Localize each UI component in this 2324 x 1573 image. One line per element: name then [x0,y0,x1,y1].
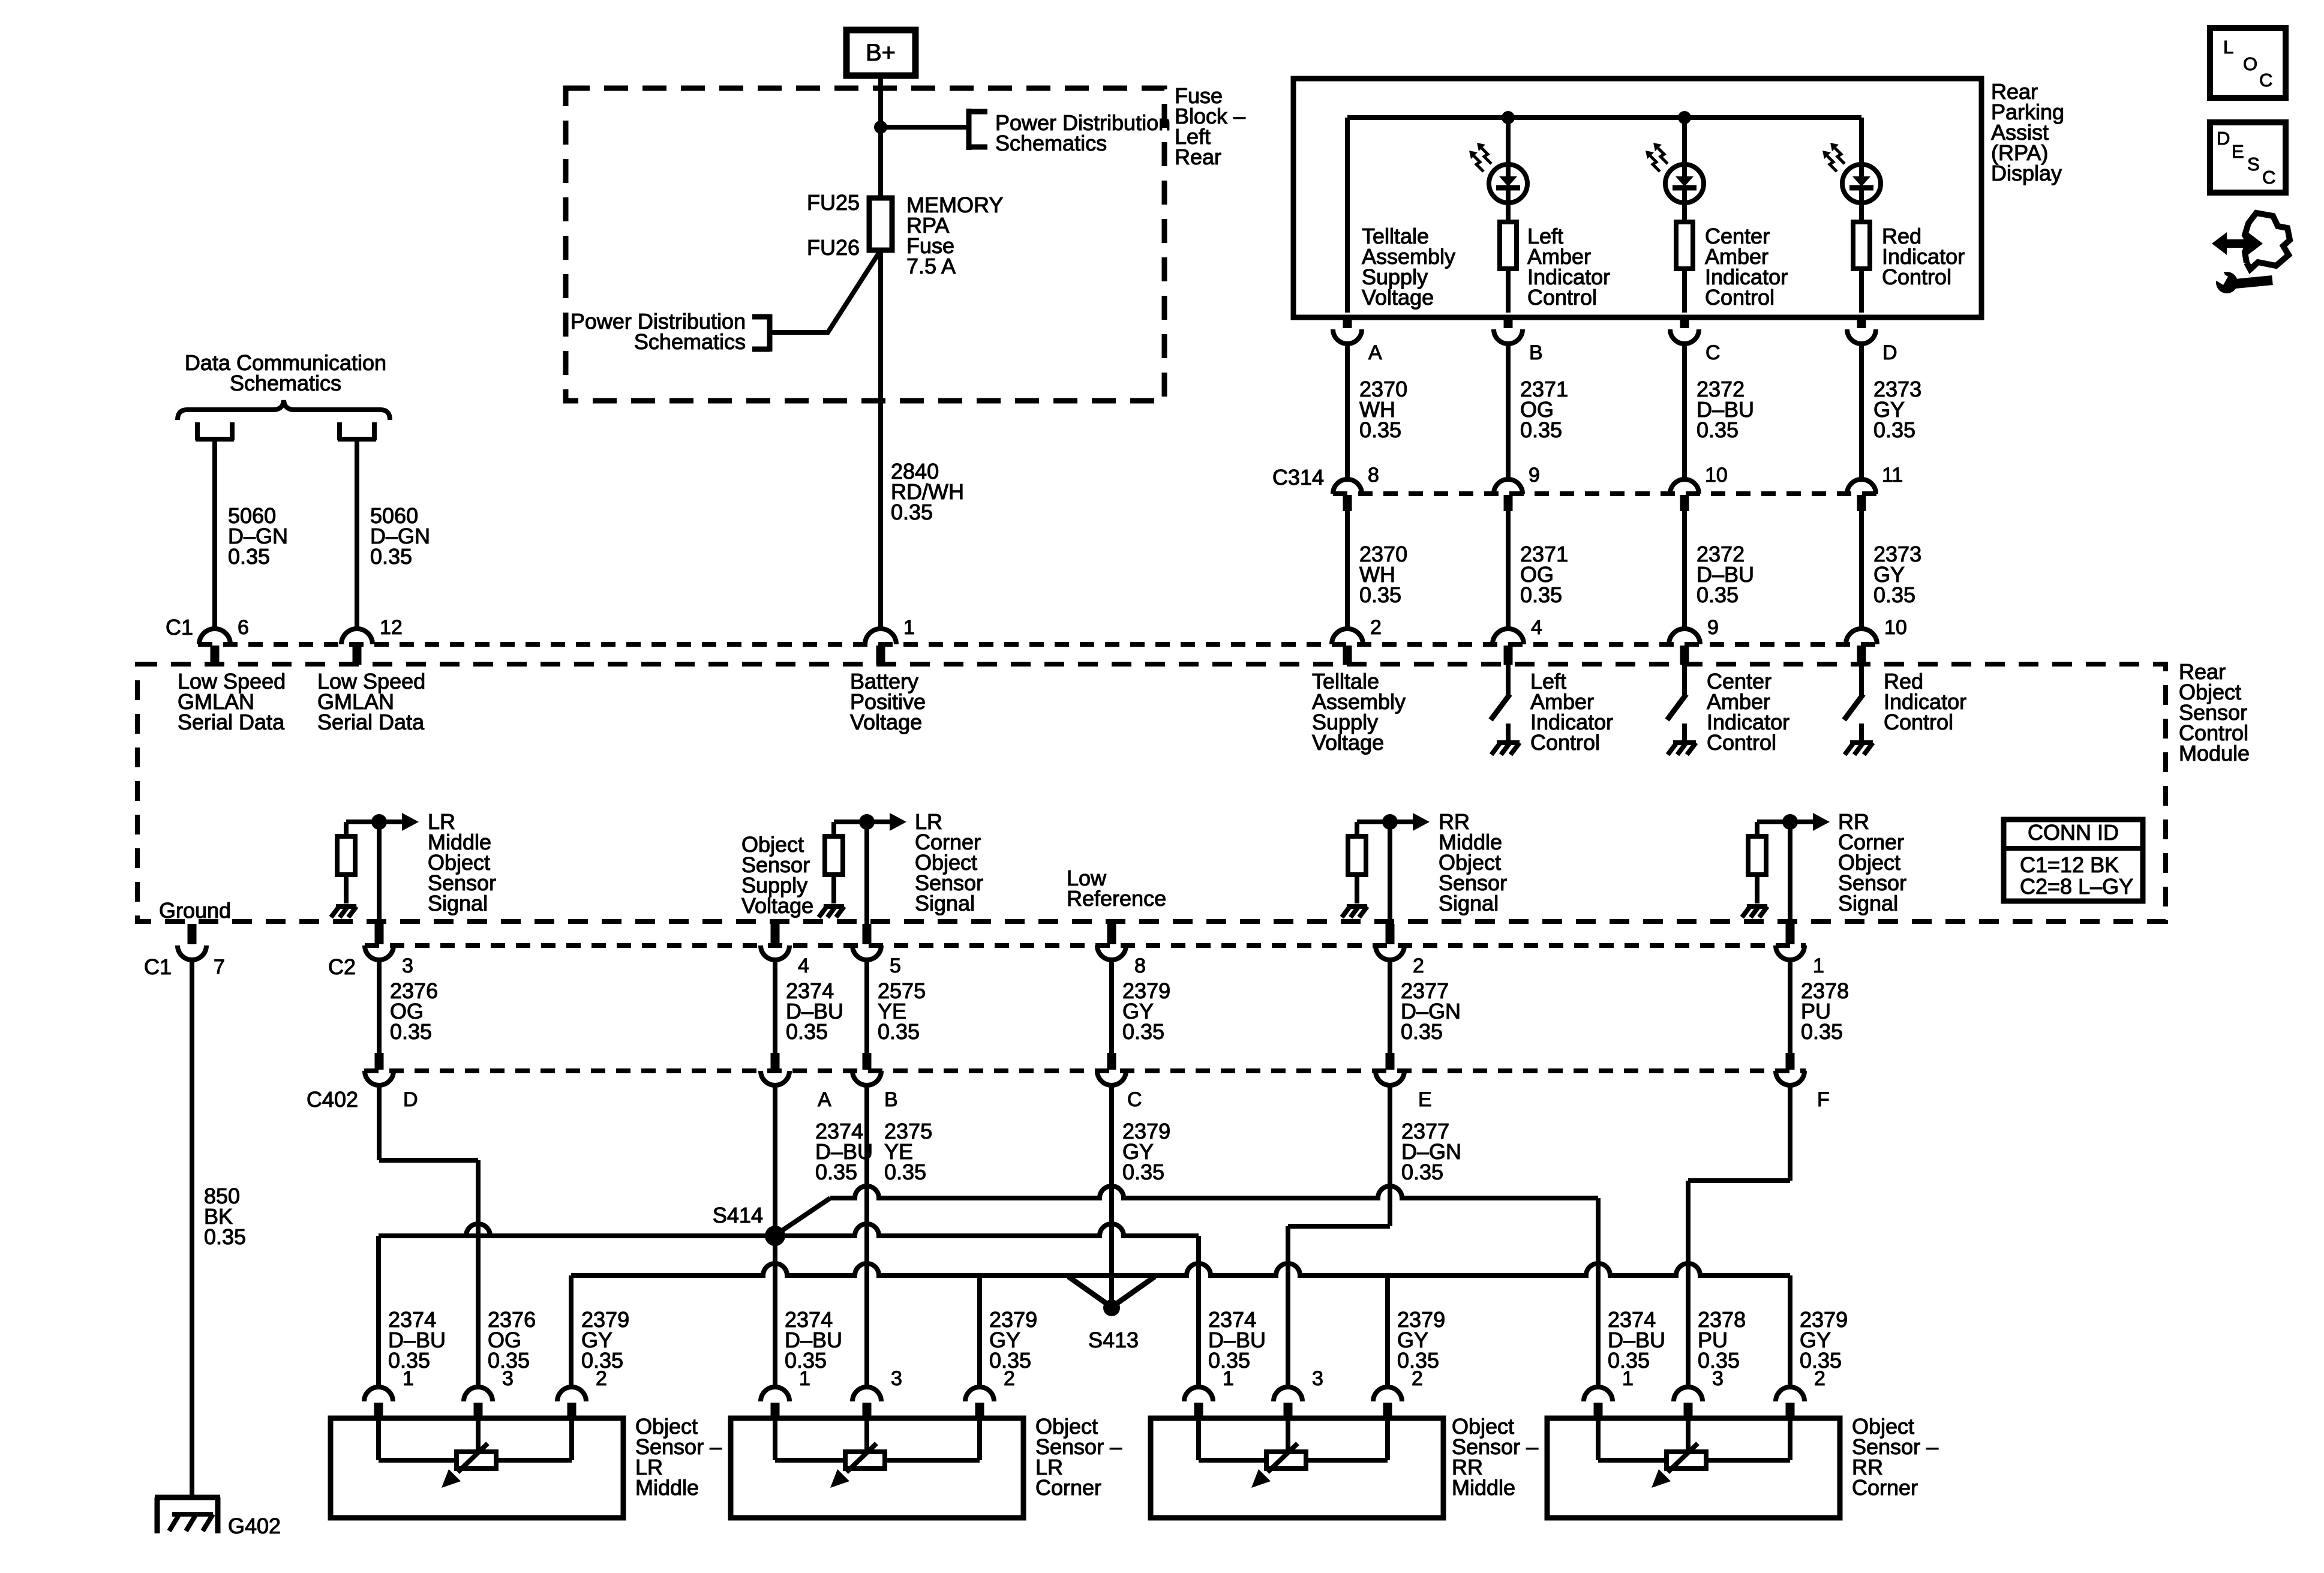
connector C402 line [364,1068,1806,1073]
wire 2374 D-BU column A [773,1085,777,1387]
label sensor pin 3 at x=1445 [891,1367,902,1390]
label wire 2374 D–BU (sensor 1) [1208,1307,1266,1373]
icon LOC box [2210,28,2286,98]
svg-text:0.35: 0.35 [1359,583,1401,607]
label module top pin 10 [1884,616,1907,639]
connector sensor entry at x=2313 [1373,1387,1402,1419]
svg-text:E: E [2232,141,2244,162]
svg-text:3: 3 [891,1367,902,1390]
svg-text:G402: G402 [228,1514,281,1538]
svg-text:C: C [2262,167,2275,188]
connector C2 pin 2 [1376,924,1404,960]
svg-text:Signal: Signal [915,891,975,915]
svg-text:0.35: 0.35 [1520,583,1562,607]
label Red (module) [1884,669,1966,734]
svg-text:2: 2 [1413,954,1424,977]
svg-text:0.35: 0.35 [786,1019,828,1044]
svg-text:C: C [1127,1088,1142,1111]
label C314 pin 11 [1882,464,1903,487]
svg-text:Display: Display [1991,161,2062,185]
svg-text:0.35: 0.35 [370,544,412,569]
conn id table [2004,819,2143,901]
connector C2 pin 3 [365,924,394,960]
connector sensor entry at x=2814 [1674,1387,1703,1419]
label wire 2379 GY (sensor 2) [1800,1307,1848,1373]
label C2 pin 8 [1134,954,1146,977]
connector C402 pin B [852,1053,881,1085]
label wire 2379 GY (sensor 2) [989,1307,1037,1373]
label low speed gmlan serial data 1 [178,669,286,734]
label C402 pin F [1817,1088,1830,1111]
connector C2 pin 4 [761,924,789,960]
label sensor pin 2 at x=953 [596,1367,607,1390]
connector display pin B [1494,315,1523,479]
label wire 2370 WH upper [1359,377,1407,442]
module output RR middle object sensor signal [1342,813,1430,925]
label sensor pin 1 at x=2664 [1622,1367,1634,1390]
svg-text:C402: C402 [307,1087,358,1112]
label red indicator control (display) [1882,224,1965,289]
svg-text:D: D [403,1088,418,1111]
wire 2378 PU pin F jog [1688,1085,1790,1387]
terminal serial data right [338,422,376,440]
label wire 2379 GY (sensor 2) [581,1307,629,1373]
svg-text:Control: Control [1705,285,1774,310]
connector sensor entry at x=1445 [852,1387,881,1419]
label C314 pin 8 [1368,464,1379,487]
svg-text:E: E [1418,1088,1432,1111]
label wire 2374 D–BU (C2-C402) [786,978,843,1044]
svg-text:D: D [2217,128,2230,149]
label Center (module) [1707,669,1789,755]
svg-text:Ground: Ground [159,898,231,923]
label wire 2373 GY lower [1873,542,1921,607]
label C314 [1272,465,1324,490]
label wire 2375 YE (below C402) [884,1119,932,1184]
label RR corner object sensor signal [1838,809,1906,915]
svg-text:1: 1 [1223,1367,1234,1390]
switch Red indicator driver [1844,665,1863,720]
label sensor pin 3 at x=2814 [1712,1367,1724,1390]
label module top pin 1 [903,616,915,639]
label S413 [1088,1328,1139,1352]
connector C402 pin A [761,1053,789,1085]
fuse block label [1175,83,1245,169]
svg-text:S414: S414 [713,1203,763,1227]
label C1 pin 7 [214,956,225,978]
off-page bracket power distribution (top) [969,109,987,150]
rear object sensor control module box [137,664,2166,921]
wire 2376 OG pin D jog [379,1085,478,1387]
object sensor RR corner [1547,1418,1840,1518]
svg-text:B: B [884,1088,898,1111]
label LR middle object sensor signal [428,809,496,915]
svg-text:Module: Module [2179,741,2250,766]
label wire 2840 RD/WH 0.35 [891,459,964,524]
wire C2 to C402 at x=2317 [1388,960,1392,1054]
connector C314 pin 10 [1670,479,1699,630]
connector sensor entry at x=797 [464,1387,493,1419]
wire 5060 D-GN left [212,440,217,630]
svg-text:Control: Control [1527,285,1597,310]
connector module top pin 4 [1493,629,1524,665]
svg-text:C1: C1 [144,954,172,979]
object sensor RR middle [1151,1418,1443,1518]
junction dot display bus B [1502,111,1515,124]
svg-text:Signal: Signal [428,891,488,915]
label module top pin 9 [1707,616,1719,639]
svg-text:B+: B+ [866,40,896,66]
svg-text:2: 2 [1412,1367,1423,1390]
svg-text:8: 8 [1368,464,1379,487]
svg-text:0.35: 0.35 [878,1019,920,1044]
label object sensor RR middle [1452,1414,1538,1500]
label wire 2377 D–GN (below C402) [1401,1119,1461,1184]
label rear parking assist display [1991,79,2064,185]
connector C2 pin 7 [178,924,206,960]
label LR corner object sensor signal [915,809,983,915]
label wire 2377 D–GN (C2-C402) [1401,978,1461,1044]
label sensor pin 2 at x=2313 [1412,1367,1423,1390]
svg-text:0.35: 0.35 [1697,418,1739,442]
connector sensor entry at x=2984 [1776,1387,1804,1419]
label power distribution schematics (top) [995,110,1170,155]
wire S414 branch to RR corner pin 1 [779,1186,1598,1387]
svg-text:9: 9 [1707,616,1719,639]
svg-text:O: O [2243,53,2257,74]
wire S413 branch to LR corner pin 2 [977,1275,982,1387]
svg-text:0.35: 0.35 [228,544,270,569]
label C2 pin 3 [402,954,413,977]
splice S414 [765,1226,785,1246]
svg-text:Rear: Rear [1175,145,1221,169]
label C402 pin D [403,1088,418,1111]
label wire 2373 GY upper [1873,377,1921,442]
svg-text:1: 1 [1622,1367,1634,1390]
connector sensor entry at x=1633 [965,1387,994,1419]
connector sensor entry at x=2664 [1584,1387,1613,1419]
connector module top pin 9 [1669,629,1700,665]
terminal serial data left [196,422,234,440]
object sensor LR middle [331,1418,623,1518]
label C1 [166,615,193,640]
label G402 [228,1514,281,1538]
label wire 2575 YE (C2-C402) [878,978,926,1044]
rear parking assist display box [1293,79,1981,317]
label wire 2374 D–BU (sensor 1) [388,1307,446,1373]
label data communication schematics [185,350,386,395]
wire tap to power distribution reference [881,125,969,130]
svg-text:C: C [2259,70,2272,91]
label object sensor supply voltage [741,832,813,918]
label FU25 [807,190,860,215]
label wire 2376 OG (sensor 3) [488,1307,536,1373]
label telltale assembly supply voltage (display) [1362,224,1455,310]
label display pin C [1706,341,1721,364]
wire S414 branch to RR middle pin 1 [775,1224,1199,1387]
module output RR corner object sensor signal [1742,813,1830,925]
svg-text:Voltage: Voltage [850,710,922,734]
label S414 [713,1203,763,1227]
label module top pin 6 [238,616,249,639]
connector display pin C [1670,315,1699,479]
connector C2 pin 1 [1776,924,1804,960]
svg-text:1: 1 [403,1367,414,1390]
label module top pin 2 [1370,616,1382,639]
wire C2 to C402 at x=2984 [1788,960,1792,1054]
label wire 2372 D–BU lower [1697,542,1754,607]
svg-text:C1: C1 [166,615,193,640]
label sensor pin 3 at x=797 [502,1367,514,1390]
svg-text:0.35: 0.35 [1401,1160,1443,1184]
svg-text:F: F [1817,1088,1830,1111]
svg-text:0.35: 0.35 [1401,1019,1443,1044]
fuse FU25/FU26 MEMORY RPA 7.5A [869,198,892,250]
label object sensor RR corner [1852,1414,1938,1500]
connector C402 pin F [1776,1053,1804,1085]
label wire 5060 D-GN 0.35 left [228,503,288,569]
connector module top pin 2 [1332,629,1363,665]
svg-text:A: A [1368,341,1382,364]
connector display pin A [1333,315,1362,479]
connector display pin D [1847,315,1876,479]
svg-text:Middle: Middle [635,1475,699,1500]
svg-text:L: L [2223,37,2233,58]
label wire 850 BK 0.35 [204,1184,246,1249]
icon wrench [2209,269,2272,293]
svg-text:8: 8 [1134,954,1146,977]
connector sensor entry at x=953 [557,1387,586,1419]
wire S414 branch to LR middle pin 1 [379,1224,775,1387]
module top connector line [198,642,1878,647]
label C402 pin C [1127,1088,1142,1111]
svg-text:2: 2 [1370,616,1382,639]
wire 5060 D-GN right [355,440,359,630]
label center amber indicator control (display) [1705,224,1788,310]
svg-text:CONN ID: CONN ID [2028,820,2119,845]
svg-text:Control: Control [1884,710,1953,734]
svg-text:9: 9 [1529,464,1540,487]
label rear object sensor control module [2179,659,2250,766]
label C2 pin 2 [1413,954,1424,977]
off-page bracket power distribution (left) [752,314,770,352]
LED left amber indicator [1469,118,1527,222]
svg-text:Corner: Corner [1852,1475,1918,1500]
label wire 2374 D–BU (sensor 1) [1608,1307,1665,1373]
svg-text:1: 1 [799,1367,810,1390]
label wire 2379 GY (C2-C402) [1122,978,1170,1044]
svg-text:Middle: Middle [1452,1475,1515,1500]
svg-text:0.35: 0.35 [1873,583,1915,607]
label C2 pin 1 [1813,954,1824,977]
label display pin D [1882,341,1897,364]
svg-text:10: 10 [1705,464,1728,487]
resistor display left [1500,222,1517,313]
label sensor pin 2 at x=2984 [1814,1367,1825,1390]
connector module top pin 10 [1846,629,1877,665]
svg-text:0.35: 0.35 [1122,1019,1164,1044]
svg-text:Serial Data: Serial Data [178,710,285,734]
wire C2 to C402 at x=1853 [1109,960,1114,1054]
label wire 2370 WH lower [1359,542,1407,607]
splice S413 [1103,1299,1120,1316]
svg-text:3: 3 [1312,1367,1323,1390]
svg-text:1: 1 [1813,954,1824,977]
connector sensor entry at x=631 [364,1387,393,1419]
svg-text:C314: C314 [1272,465,1324,490]
label fuse name [906,193,1003,278]
svg-text:6: 6 [238,616,249,639]
icon schematic navigation arrow [2212,213,2290,269]
label display pin B [1529,341,1543,364]
svg-text:S413: S413 [1088,1328,1139,1352]
wire fuse to power distribution (diagonal) [771,250,881,332]
brace data communication [178,400,390,420]
connector C402 pin D [365,1053,394,1085]
connector sensor entry at x=1998 [1184,1387,1213,1419]
svg-text:Control: Control [1882,265,1951,289]
connector module top pin 12 [341,629,373,665]
svg-text:0.35: 0.35 [1801,1019,1843,1044]
label object sensor LR corner [1035,1414,1122,1500]
svg-text:7: 7 [214,956,225,978]
svg-text:0.35: 0.35 [891,500,933,524]
label display pin A [1368,341,1382,364]
wire B+ to fuse FU25 [878,76,883,198]
wire 2379 GY column C [1109,1085,1114,1303]
wire 2375 YE column B [864,1085,869,1387]
svg-text:3: 3 [502,1367,514,1390]
svg-text:0.35: 0.35 [204,1224,246,1249]
label wire 2378 PU (C2-C402) [1801,978,1849,1044]
wire 2377 D-GN pin E jog [1288,1085,1390,1387]
svg-text:10: 10 [1884,616,1907,639]
ground Left indicator [1491,724,1520,755]
label module top pin 12 [380,616,403,639]
svg-text:Voltage: Voltage [1312,730,1384,755]
wire S413 low reference bus [571,1263,1790,1387]
svg-text:0.35: 0.35 [815,1160,857,1184]
svg-text:Signal: Signal [1439,891,1499,915]
svg-text:4: 4 [1531,616,1542,639]
battery feed B+ terminal box [846,30,915,76]
junction dot power distribution tap [874,121,887,134]
label battery positive voltage [850,669,926,734]
svg-text:FU25: FU25 [807,190,860,215]
svg-text:0.35: 0.35 [1873,418,1915,442]
label C402 [307,1087,358,1112]
label C2 pin 5 [890,954,901,977]
ground Center indicator [1668,724,1696,755]
junction dot display bus C [1678,111,1691,124]
label sensor pin 2 at x=1633 [1004,1367,1015,1390]
label module top pin 4 [1531,616,1542,639]
connector C314 line [1333,491,1878,496]
svg-text:Control: Control [1530,730,1600,755]
svg-text:A: A [818,1088,831,1111]
connector C402 pin C [1097,1053,1126,1085]
switch Center indicator driver [1667,665,1686,720]
label wire 2372 D–BU upper [1697,377,1754,442]
fuse block dashed box [566,88,1164,401]
svg-text:5: 5 [890,954,901,977]
module output LR corner object sensor signal [819,813,906,925]
label wire 5060 D-GN 0.35 right [370,503,430,569]
label left amber indicator control (display) [1527,224,1610,310]
label C2 pin 4 [798,954,809,977]
svg-text:11: 11 [1882,464,1903,487]
label C402 pin B [884,1088,898,1111]
svg-text:FU26: FU26 [807,235,860,260]
label wire 2378 PU (sensor 3) [1698,1307,1746,1373]
label sensor pin 3 at x=2147 [1312,1367,1323,1390]
svg-text:4: 4 [798,954,809,977]
display internal supply bus [1347,118,1861,313]
svg-text:Schematics: Schematics [230,371,341,395]
label low speed gmlan serial data 2 [317,669,425,734]
svg-text:C1=12 BK: C1=12 BK [2020,852,2119,877]
label C402 pin E [1418,1088,1432,1111]
connector sensor entry at x=1292 [761,1387,789,1419]
object sensor LR corner [731,1418,1023,1518]
svg-text:0.35: 0.35 [1520,418,1562,442]
label wire 2379 GY (below C402) [1122,1119,1170,1184]
svg-text:1: 1 [903,616,915,639]
label wire 2376 OG (C2-C402) [390,978,438,1044]
label object sensor LR middle [635,1414,722,1500]
svg-text:Voltage: Voltage [741,893,813,918]
svg-text:0.35: 0.35 [1697,583,1739,607]
svg-text:2: 2 [596,1367,607,1390]
svg-text:2: 2 [1814,1367,1825,1390]
svg-text:3: 3 [402,954,413,977]
LED center amber indicator [1646,118,1704,222]
wire C2 to C402 at x=632 [377,960,382,1054]
connector module top pin 1 [865,629,896,665]
ground G402 [155,1497,220,1533]
svg-text:C2=8 L–GY: C2=8 L–GY [2020,874,2133,899]
svg-text:C: C [1706,341,1721,364]
svg-text:2: 2 [1004,1367,1015,1390]
resistor display red [1853,222,1870,313]
svg-text:12: 12 [380,616,403,639]
svg-text:0.35: 0.35 [1122,1160,1164,1184]
connector C314 pin 9 [1494,479,1523,630]
connector C2 line [365,943,1806,948]
module output LR middle object sensor signal [331,813,419,925]
connector C402 pin E [1376,1053,1404,1085]
svg-text:Corner: Corner [1035,1475,1101,1500]
label wire 2371 OG upper [1520,377,1568,442]
svg-text:Schematics: Schematics [995,131,1107,155]
connector sensor entry at x=2147 [1274,1387,1302,1419]
label wire 2374 D–BU (sensor 1) [785,1307,842,1373]
svg-text:Serial Data: Serial Data [317,710,425,734]
label Left (module) [1530,669,1613,755]
label low reference [1067,866,1166,911]
svg-text:Signal: Signal [1838,891,1898,915]
svg-text:3: 3 [1712,1367,1724,1390]
wire 850 BK to G402 [190,960,194,1497]
label ground (module) [159,898,231,923]
svg-text:C2: C2 [328,954,356,979]
svg-text:Schematics: Schematics [634,329,746,354]
wire C2 to C402 at x=1445 [864,960,869,1054]
ground Red indicator [1845,724,1873,755]
connector C314 pin 8 [1333,479,1362,630]
label telltale assembly supply voltage (module) [1312,669,1406,755]
label C1 pin7 connector [144,954,172,979]
